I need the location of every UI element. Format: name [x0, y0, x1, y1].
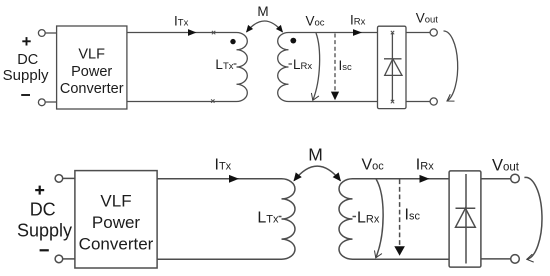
svg-text:DC: DC [17, 52, 38, 68]
svg-text:Supply: Supply [3, 67, 49, 84]
svg-text:Power: Power [71, 64, 112, 80]
svg-text:Converter: Converter [60, 81, 124, 97]
svg-text:Power: Power [92, 213, 141, 232]
svg-text:DC: DC [30, 199, 56, 219]
svg-text:VLF: VLF [100, 192, 131, 211]
svg-text:M: M [257, 4, 268, 19]
svg-text:Supply: Supply [17, 220, 72, 240]
svg-text:M: M [308, 144, 323, 164]
svg-text:VLF: VLF [78, 47, 105, 63]
svg-text:Converter: Converter [79, 235, 154, 254]
